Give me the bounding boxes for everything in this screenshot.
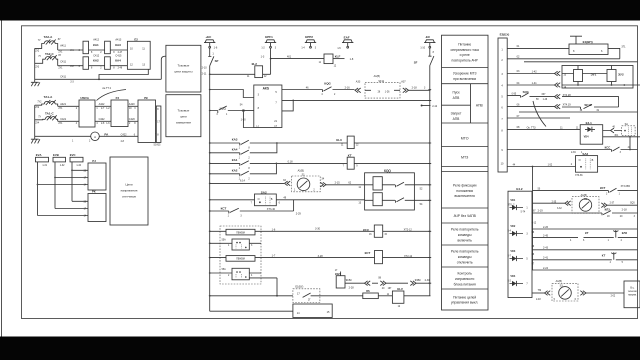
svg-text:ЭУ2: ЭУ2 [618,72,624,76]
svg-text:ХТ4.19: ХТ4.19 [563,104,572,107]
svg-text:RS: RS [366,290,370,293]
wire row A411 [58,45,128,54]
svg-text:В ц.: В ц. [630,288,634,290]
node EVC taps [71,169,73,171]
wire EVC phase drop [72,162,88,201]
svg-text:3-32: 3-32 [557,208,562,210]
svg-text:цепи: цепи [180,114,187,118]
svg-text:АПВ: АПВ [453,117,461,121]
svg-text:АПВ: АПВ [476,104,484,108]
svg-text:КQG: КQG [324,81,331,85]
svg-text:93ВК: 93ВК [415,279,421,282]
arrow chevrons A37 [401,80,408,92]
contact KA2 row [210,163,277,180]
wire strip row 7 [507,115,570,118]
wire telemetry output riser [249,278,277,296]
fuse EVC [70,153,83,167]
svg-text:ПВ/КВМ: ПВ/КВМ [236,259,245,261]
svg-text:2-46: 2-46 [118,68,123,70]
svg-text:РК: РК [92,190,96,194]
table row: close command repeater [451,228,479,243]
node EU rail junctions [577,84,625,86]
svg-text:Токовые: Токовые [178,64,190,68]
diode block E4.2 [508,187,532,298]
wire long row y112 [519,111,638,113]
node pin7 branch [292,100,294,102]
svg-text:КQQ: КQQ [220,106,227,110]
svg-text:блока питания: блока питания [454,282,476,286]
top letterbox bar [0,0,640,21]
wire SA2 feed row [210,200,255,205]
svg-text:5С425: 5С425 [154,145,161,147]
svg-text:Е1(БУ): Е1(БУ) [295,286,303,289]
arrow chevrons KGT left [365,281,371,286]
box: current circuits of measurement [166,95,201,137]
svg-text:2-12: 2-12 [432,105,438,108]
svg-text:А1(В): А1(В) [298,170,305,173]
wire E4.1 to SA box [603,127,622,137]
svg-text:А33: А33 [356,80,361,83]
svg-text:КLF: КLF [335,55,341,59]
svg-text:ЕРР2: ЕРР2 [305,35,313,39]
svg-text:КА1: КА1 [93,43,99,47]
svg-text:ЕVС: ЕVС [70,153,76,157]
svg-text:А37: А37 [401,80,406,83]
svg-text:КА4: КА4 [115,59,121,63]
svg-text:2-35: 2-35 [552,201,557,203]
node junction 54 [242,110,244,112]
svg-text:КСС: КСС [605,145,611,149]
telemetry unit 1 contact block [222,239,253,250]
node junction at C411 bottom [98,78,100,80]
svg-text:1-52: 1-52 [548,164,553,166]
svg-text:Питание цепей: Питание цепей [453,295,476,299]
relay coil KA4 [105,54,122,69]
wire KLV row from bus [210,295,293,297]
svg-text:2-43: 2-43 [543,247,549,250]
node bus junctions [209,73,211,296]
svg-text:1-3: 1-3 [261,55,265,58]
contact KQQ (aux, near bus) [210,105,244,116]
svg-text:КА2: КА2 [93,59,99,63]
wire row C421 [58,118,79,125]
node telemetry riser joins KLV row [276,295,278,297]
svg-text:Реле повторитель: Реле повторитель [451,228,479,232]
table row: open command repeater [451,250,479,265]
bottom letterbox bar [0,337,640,360]
see sheet TT2 swoosh [97,87,127,100]
wire S3 to telemetry box [586,293,624,297]
wire KGT row to bus [416,279,431,283]
breaker A1(B) SF11 (dashed) [365,75,400,98]
svg-text:ХТ2-12: ХТ2-12 [404,255,413,258]
relay KGT row [335,270,365,289]
svg-text:А1(В): А1(В) [374,75,381,78]
svg-text:1-32: 1-32 [60,165,65,167]
wire SF11 row to right bus [409,87,431,91]
svg-text:А413: А413 [115,39,121,42]
wire row A421 [58,103,79,110]
wire strip row 4 with arrows 14 [507,82,567,89]
svg-text:МТЗ: МТЗ [461,155,468,159]
relay KQQ (position repeater) [365,169,415,210]
svg-text:VD2: VD2 [510,225,515,228]
contact KA3 row [210,138,348,150]
wire to right arrows [386,282,408,284]
svg-text:РJ: РJ [116,96,120,100]
diode VD3 [508,250,529,261]
device E1(VP) [569,40,608,54]
svg-text:Токовые: Токовые [178,108,190,112]
svg-text:ХТ3-40: ХТ3-40 [267,208,276,211]
svg-text:команды: команды [458,233,472,237]
relay coil KA2 [83,54,100,69]
terminal EPF1 [261,35,276,50]
svg-text:2-41: 2-41 [543,257,549,260]
connector strip E2(BU) [498,32,509,172]
wire E4.2 row 2-19 with contact KL3 [532,208,638,218]
ammeter PA [91,132,100,141]
svg-text:повторитель АЧР: повторитель АЧР [452,59,479,63]
svg-text:КQQ: КQQ [384,169,391,173]
wire left vertical to PA row (measurement) [34,105,36,136]
terminal EPP2 [301,35,316,50]
svg-text:Е2(БУ): Е2(БУ) [500,32,510,36]
svg-text:положения: положения [456,189,473,193]
node EVB taps [54,177,56,179]
wire pin7 jog back to AKS [282,100,293,111]
svg-text:А411: А411 [60,45,66,48]
svg-text:КСТ: КСТ [221,207,227,211]
svg-text:ХТ3-65Ф: ХТ3-65Ф [621,185,631,188]
relay KLF [319,54,354,67]
table row: power unit check [454,272,476,287]
svg-text:КА2: КА2 [232,168,238,172]
node KCC row junction [629,149,631,151]
wire EU bottom rail to frame [562,84,640,86]
svg-text:2-37: 2-37 [610,202,615,204]
svg-text:ХТ6..2: ХТ6..2 [508,204,515,206]
contact KCC (right) [507,145,637,153]
svg-text:КСС: КСС [363,228,370,232]
ground (CT protection section) [31,79,40,86]
relay coil KA1 [83,39,100,54]
svg-text:КА1: КА1 [232,158,238,162]
svg-text:1-6: 1-6 [272,228,276,231]
wire E4.2 row 2-45 with contact KT and KL2 [532,230,638,242]
wire E4.2 row 2-41 with contact KT [532,252,638,264]
svg-text:2-30: 2-30 [425,279,431,282]
diode VD1 [508,199,529,213]
wire row C411 [58,60,128,69]
svg-text:О: О [258,198,260,201]
wire EVA phase drop [38,162,89,216]
svg-text:Контроль: Контроль [458,272,473,276]
svg-text:А420: А420 [129,103,135,106]
svg-text:А1(В): А1(В) [556,280,563,283]
svg-text:КТ: КТ [348,153,352,157]
svg-text:Питание: Питание [458,43,471,47]
contact KA1 row [210,158,348,170]
switch SA2 (right) [575,152,598,177]
svg-text:ХТ3-66: ХТ3-66 [575,175,583,177]
meter PK (lower) [84,190,106,222]
svg-text:ТА1-А: ТА1-А [44,95,53,99]
svg-text:SР: SР [215,59,219,63]
svg-text:выключателя: выключателя [455,194,476,198]
telemetry unit 2 plate [226,256,255,262]
device AKS [254,85,282,128]
svg-text:Е2: Е2 [134,38,138,42]
svg-text:1-50: 1-50 [241,118,247,121]
svg-text:SQG: SQG [523,90,529,94]
wire strip row 3 with arrows 13 [507,70,567,76]
arrow chevrons KGT right [410,279,421,286]
relay KL2 [210,62,271,78]
svg-text:ЕАF: ЕАF [344,35,350,39]
wire SA2 right output [598,166,638,168]
svg-text:Реле фиксации: Реле фиксации [453,184,477,188]
svg-text:55А: 55А [222,268,227,271]
wire SA2 output to KQQ pin 13 [276,197,364,205]
table row: APV block [451,112,462,121]
node 401 junction [270,58,272,60]
svg-text:КТ: КТ [602,253,606,257]
contact SF13 [562,103,619,112]
svg-text:и реле: и реле [460,53,470,57]
relay KT (middle) [343,153,431,169]
svg-text:+ЕС: +ЕС [205,35,212,39]
meter PJ (lower) [84,159,106,190]
wire TA1-A leads [35,104,58,106]
svg-text:Запрет: Запрет [451,112,462,116]
wire EVB phase drop [55,162,88,209]
svg-text:1-40: 1-40 [76,165,81,167]
svg-text:напряж.: напряж. [628,294,637,296]
relay KLV [378,287,430,308]
svg-text:6.14: 6.14 [240,180,245,183]
svg-text:ЕVВ: ЕVВ [53,153,59,157]
transducer UWVA [79,96,95,127]
terminal strip right of PK [154,106,161,147]
svg-text:РК: РК [144,96,148,100]
wire PA ammeter row [35,133,138,143]
svg-text:команды: команды [458,255,472,259]
wire riser to KCT row [293,200,295,211]
svg-text:2-48: 2-48 [536,299,541,301]
meter PK (upper) [138,96,156,143]
svg-text:РJ: РJ [92,159,96,163]
svg-text:Реле повторитель: Реле повторитель [451,250,479,254]
svg-text:телеизм.: телеизм. [628,291,638,293]
relay KCT coil row [255,251,431,264]
resistor RS [320,290,378,298]
wire E4.2 row 2-26 [532,223,638,229]
arrow chevrons into S1 [285,181,291,186]
wire KQQ outputs to bus [414,185,430,206]
table row: APV start [452,91,460,100]
svg-text:2-19: 2-19 [538,210,544,213]
svg-text:55А: 55А [222,239,227,242]
svg-text:0-95: 0-95 [512,94,517,96]
svg-text:2-11: 2-11 [202,72,207,75]
box: voltage circuits of meters [110,157,148,225]
wire left vertical to ground (CT section) [34,48,36,79]
svg-text:ЕVА: ЕVА [36,153,42,157]
terminal EAF [337,35,353,49]
svg-text:Ускорение МТЗ: Ускорение МТЗ [453,72,477,76]
svg-text:оперативного тока: оперативного тока [451,48,480,52]
drawing frame border [22,26,638,319]
table row: control circuits supply [451,295,478,304]
wire junction to AKS pin 8 [245,110,254,112]
node SA2 row branch [532,166,534,168]
wire E4.1 lower output to KCC riser [603,137,640,150]
contact KA4 row [210,143,277,159]
svg-text:ТА1-С: ТА1-С [45,112,54,116]
svg-text:2-10: 2-10 [202,67,208,70]
svg-text:напряжения: напряжения [121,189,138,193]
svg-text:АПВ: АПВ [453,96,461,100]
switch SP on left bus [208,48,218,66]
svg-text:ХТ2-12: ХТ2-12 [404,228,413,231]
wire telemetry taps from bus [210,231,261,273]
fuse EVB [53,153,66,167]
relay KCC row [255,225,431,237]
arrow chevrons out of S1 [320,177,326,187]
table row: breaker position relay [453,184,477,199]
wire row 5 loop right [562,97,619,107]
svg-text:1-41: 1-41 [532,82,538,85]
svg-text:цепи защиты: цепи защиты [174,70,192,74]
wire SA2 right feed row [507,164,575,166]
svg-text:VD3: VD3 [510,250,515,253]
svg-text:SА: SА [625,123,629,126]
meter PJ (upper) [111,96,128,127]
svg-text:АКS: АКS [263,86,269,90]
svg-text:О: О [579,159,581,162]
switch SA2 (middle) [255,190,277,205]
current transformer TA1-C [38,112,57,121]
svg-text:1-42: 1-42 [532,71,538,74]
svg-text:1-8: 1-8 [350,58,354,61]
wire E1(VP) top stub [570,36,582,44]
trip coil block (EU1/EU2 box) [562,66,633,89]
svg-text:1-10: 1-10 [420,47,425,49]
svg-text:3-30: 3-30 [315,228,321,231]
svg-text:VD4: VD4 [584,135,589,138]
svg-text:1-7: 1-7 [272,255,276,258]
svg-text:КЛ2: КЛ2 [622,231,628,235]
svg-text:А1(В): А1(В) [581,194,588,197]
svg-text:ТА2-С: ТА2-С [45,52,54,56]
current transformer TA1-A [37,95,55,105]
svg-text:счетчиков: счетчиков [122,195,136,199]
wire S1 to KQQ pin 11 [326,182,365,189]
table row: operative current supply [451,43,480,63]
svg-text:0.18: 0.18 [288,160,293,163]
wire E2 bottom return [99,69,148,79]
swoosh Ok.TT3 [533,101,546,127]
svg-text:см.ТТ 2: см.ТТ 2 [102,87,111,90]
svg-text:КЛ3: КЛ3 [605,208,611,212]
terminal block E2 [127,38,150,70]
relay coil KA3 [105,39,122,54]
svg-text:1-31: 1-31 [42,165,47,167]
svg-text:управления выкл.: управления выкл. [451,301,478,305]
svg-text:КТ: КТ [585,231,589,235]
current transformer TA2-C [38,52,61,60]
svg-text:С421: С421 [60,118,67,121]
svg-text:5-74: 5-74 [521,211,526,213]
svg-text:2-45: 2-45 [543,234,549,237]
node right bus ticks [428,90,431,284]
svg-text:Ок. ТТЗ: Ок. ТТЗ [527,126,536,129]
wire TA2-C leads [35,59,58,65]
arrow chevrons A33 [355,80,361,92]
wire S1 row from bus [210,179,287,184]
wire KL2 riser to 401 row [270,59,272,75]
telemetry unit 1 plate [226,229,255,235]
wire 2-12 stub [421,105,438,109]
arrow chevrons KGT mid [380,281,392,290]
svg-text:С420: С420 [129,118,136,121]
svg-text:0-12: 0-12 [532,223,537,225]
svg-text:VD4: VD4 [510,275,515,278]
svg-text:401: 401 [287,55,292,58]
svg-text:КL3: КL3 [336,138,342,142]
wire strip row 1 to E1(VP) [507,45,569,48]
svg-text:А422: А422 [99,103,105,106]
svg-text:(-): (-) [256,125,259,128]
svg-text:отключить: отключить [457,260,473,264]
svg-text:включить: включить [458,238,473,242]
svg-text:КА4: КА4 [232,147,238,151]
svg-text:2-28: 2-28 [349,287,355,290]
box: current circuits of protection [166,45,201,92]
selector SA (dotted box) [622,123,635,136]
svg-text:-ЕС: -ЕС [425,35,431,39]
node labels left CT column [35,51,40,69]
node KA3/KA4 merge [276,142,278,144]
svg-text:2-39: 2-39 [571,152,576,154]
svg-text:ТМ: ТМ [538,289,542,292]
node labels 2-10 2-11 [202,67,208,76]
wire strip row 8 to E4.1 [507,126,580,129]
box: telemetry circuits (bottom right) [624,281,640,308]
contact KCT (right) [533,185,638,195]
svg-text:2-16: 2-16 [345,87,351,90]
function description table [442,35,489,310]
svg-text:ТА2-А: ТА2-А [44,35,53,39]
wire between arrows [372,276,382,283]
switch A1(B) S3 (dashed) [552,280,578,301]
fuse EVA [36,153,49,167]
svg-text:1-6: 1-6 [214,47,218,50]
svg-text:Е4.2: Е4.2 [516,187,523,191]
terminal -EC [420,35,435,50]
svg-text:SF11: SF11 [378,80,384,83]
svg-text:1-46: 1-46 [543,99,548,101]
wire PJ to PK row A [128,103,138,110]
svg-text:91ВК: 91ВК [346,279,352,282]
svg-text:С422: С422 [99,118,106,121]
svg-text:КСТ: КСТ [600,186,606,190]
svg-text:SQ5: SQ5 [630,202,635,204]
arrows XT4.28 [555,94,572,99]
node EVA taps [37,184,39,186]
wire strip row 6 with arrows XT4.19 [507,103,571,109]
